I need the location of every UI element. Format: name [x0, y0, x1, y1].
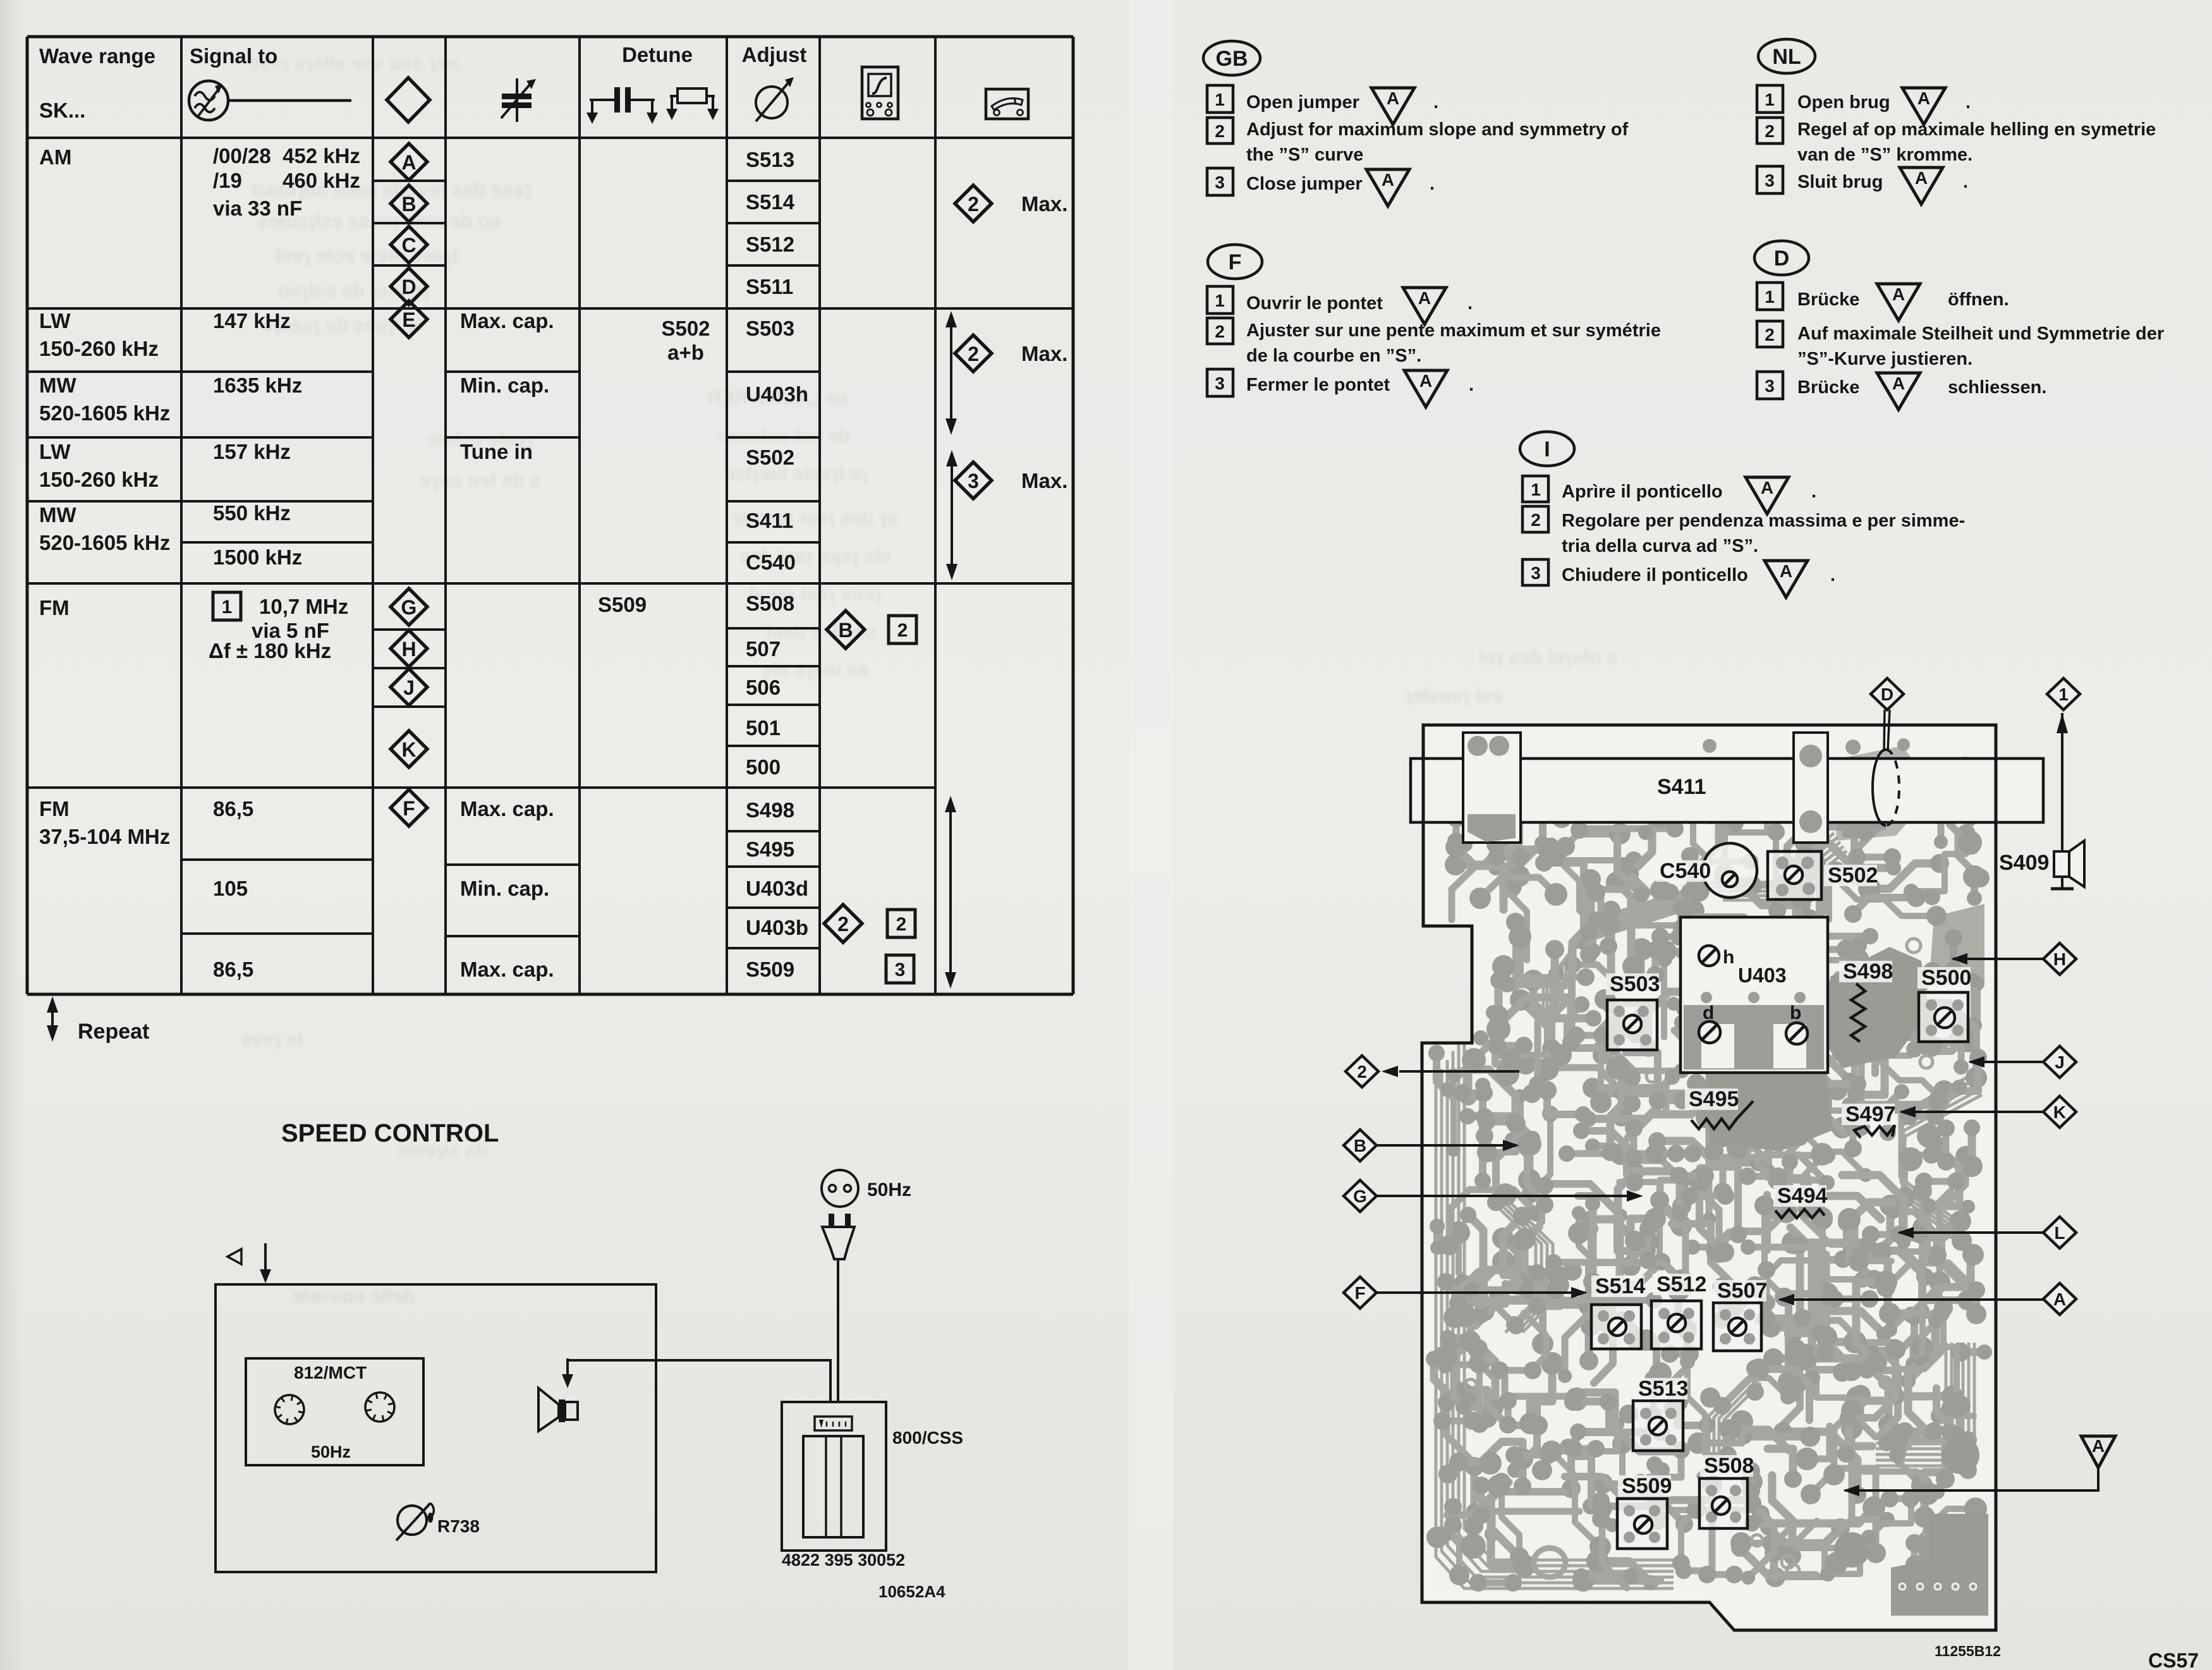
svg-text:MW: MW — [39, 503, 76, 527]
svg-text:/19 460 kHz: /19 460 kHz — [213, 169, 360, 192]
svg-text:de la courbe en ”S”.: de la courbe en ”S”. — [1246, 346, 1421, 366]
svg-text:S514: S514 — [746, 190, 795, 214]
svg-text:2: 2 — [1765, 325, 1775, 344]
NL section — [1758, 39, 1815, 73]
svg-text:Max. cap.: Max. cap. — [460, 797, 554, 820]
svg-text:B: B — [838, 619, 853, 642]
svg-text:507: 507 — [746, 637, 781, 661]
U403 trimmer d — [1699, 1021, 1720, 1043]
svg-text:.: . — [1469, 375, 1474, 395]
I step 1 — [1522, 476, 1548, 502]
svg-text:812/MCT: 812/MCT — [294, 1363, 367, 1382]
svg-text:K: K — [2053, 1102, 2066, 1122]
D step 2 — [1757, 321, 1783, 347]
node C — [391, 226, 427, 263]
svg-text:F: F — [1354, 1283, 1365, 1303]
svg-text:3: 3 — [895, 960, 906, 980]
right reel — [365, 1393, 394, 1422]
svg-text:B: B — [401, 193, 416, 216]
svg-text:Wave range: Wave range — [39, 44, 155, 68]
arrow into chassis — [264, 1243, 267, 1272]
U403 trimmer b — [1786, 1023, 1808, 1044]
wire from speaker to mains cord — [568, 1360, 830, 1402]
trimmer S503 — [1607, 1000, 1657, 1050]
play direction triangle — [228, 1249, 241, 1264]
svg-text:C540: C540 — [1660, 859, 1711, 883]
svg-text:A: A — [2053, 1289, 2066, 1309]
I section — [1520, 432, 1574, 466]
svg-text:/00/28 452 kHz: /00/28 452 kHz — [213, 144, 360, 168]
svg-text:A: A — [1780, 561, 1792, 581]
svg-text:LW: LW — [39, 440, 71, 463]
svg-text:11255B12: 11255B12 — [1935, 1643, 2001, 1659]
svg-text:Max. cap.: Max. cap. — [460, 958, 554, 981]
svg-text:D: D — [1774, 247, 1790, 271]
repeat arrow LW/MW second — [951, 458, 953, 573]
svg-text:CS57: CS57 — [2148, 1649, 2199, 1670]
svg-text:Adjust: Adjust — [742, 43, 807, 66]
callout D with probe — [1871, 678, 1904, 710]
svg-text:S409: S409 — [1999, 851, 2049, 875]
svg-text:S512: S512 — [746, 233, 794, 256]
svg-text:10652A4: 10652A4 — [878, 1582, 945, 1601]
svg-text:S502: S502 — [1828, 863, 1878, 887]
repeat arrow FM2 — [949, 803, 952, 981]
svg-text:H: H — [2053, 949, 2066, 969]
svg-text:147 kHz: 147 kHz — [213, 309, 291, 332]
svg-text:K: K — [401, 738, 416, 761]
trimmer S507 — [1713, 1303, 1761, 1351]
D section — [1754, 241, 1809, 275]
svg-text:A: A — [401, 151, 416, 174]
svg-text:G: G — [1353, 1186, 1367, 1206]
svg-text:Brücke: Brücke — [1797, 377, 1859, 398]
svg-text:S512: S512 — [1656, 1272, 1706, 1296]
svg-text:ƨɘɘɿ ɘƚ: ƨɘɘɿ ɘƚ — [241, 1028, 303, 1051]
svg-text:Detune: Detune — [622, 43, 693, 66]
svg-text:U403b: U403b — [746, 916, 808, 939]
svg-text:F: F — [403, 797, 415, 820]
svg-text:Tune in: Tune in — [460, 440, 533, 463]
svg-text:S500: S500 — [1921, 966, 1971, 990]
svg-text:3: 3 — [968, 470, 979, 492]
I step 3 — [1522, 559, 1548, 585]
svg-text:L: L — [2054, 1223, 2065, 1243]
header: meter icon — [986, 89, 1028, 119]
resistor S498 — [1839, 961, 1892, 982]
trimmer S513 — [1633, 1401, 1683, 1451]
svg-text:2: 2 — [896, 914, 907, 935]
svg-text:3: 3 — [1215, 173, 1225, 192]
svg-text:ƚɘɿ ƨɘb ƚɘɿʜƚɒ ƨ: ƚɘɿ ƨɘb ƚɘɿʜƚɒ ƨ — [1480, 646, 1618, 668]
svg-text:h: h — [1723, 947, 1734, 968]
svg-text:tria della curva ad ”S”.: tria della curva ad ”S”. — [1562, 536, 1758, 556]
svg-text:F: F — [1229, 250, 1242, 274]
svg-text:ɘɿʜɒ ʜɘƚ ɘb ƨ: ɘɿʜɒ ʜɘƚ ɘb ƨ — [420, 469, 541, 491]
svg-text:ƨɘɘʜƚɘɒ ƚɘƨ ɘb: ƨɘɘʜƚɘɒ ƚɘƨ ɘb — [717, 425, 851, 447]
jumper A triangle — [2081, 1436, 2115, 1468]
svg-text:the ”S” curve: the ”S” curve — [1246, 145, 1363, 165]
svg-text:.: . — [1830, 565, 1835, 585]
chassis box — [216, 1284, 656, 1572]
svg-text:.: . — [1966, 92, 1971, 113]
svg-text:AM: AM — [39, 145, 71, 169]
node J — [391, 669, 427, 705]
svg-text:Max. cap.: Max. cap. — [460, 309, 554, 332]
svg-text:E: E — [402, 308, 415, 331]
svg-text:.: . — [1811, 482, 1816, 502]
svg-text:Open jumper: Open jumper — [1246, 92, 1359, 113]
svg-text:Repeat: Repeat — [78, 1020, 149, 1044]
trimmer S502 — [1768, 851, 1821, 899]
svg-text:J: J — [403, 676, 415, 699]
svg-text:3: 3 — [1215, 374, 1225, 393]
GB section — [1203, 41, 1260, 75]
svg-text:Open brug: Open brug — [1797, 92, 1890, 113]
faint bleed-through text (show-through from reverse page) — [241, 52, 1617, 1307]
callout 1 with antenna line to S409 — [2047, 678, 2080, 710]
svg-text:3: 3 — [1531, 563, 1541, 583]
svg-text:.: . — [1468, 293, 1473, 314]
svg-text:A: A — [1917, 88, 1930, 108]
header: trimmer capacitor symbol — [516, 78, 518, 122]
svg-text:105: 105 — [213, 877, 248, 900]
svg-text:S498: S498 — [746, 798, 794, 822]
module U403 — [1680, 917, 1828, 1073]
svg-text:S511: S511 — [746, 275, 793, 298]
svg-text:2: 2 — [1765, 121, 1775, 141]
svg-text:Sluit brug: Sluit brug — [1797, 172, 1883, 192]
node H — [391, 630, 427, 667]
scope node 2 step 2 — [824, 905, 862, 942]
S411 left bracket — [1463, 733, 1521, 843]
svg-text:Max.: Max. — [1021, 469, 1067, 492]
svg-text:A: A — [1761, 478, 1773, 497]
svg-text:37,5-104 MHz: 37,5-104 MHz — [39, 825, 170, 848]
svg-text:J: J — [2055, 1052, 2065, 1072]
svg-text:S495: S495 — [746, 838, 794, 861]
node E — [391, 301, 427, 338]
svg-text:R738: R738 — [437, 1516, 480, 1536]
svg-text:S507: S507 — [1717, 1279, 1767, 1303]
svg-text:a+b: a+b — [667, 341, 704, 364]
svg-text:50Hz: 50Hz — [311, 1442, 351, 1461]
meter step 3 — [886, 955, 914, 983]
svg-text:.: . — [1433, 92, 1438, 113]
svg-text:U403: U403 — [1738, 964, 1787, 987]
svg-text:A: A — [1892, 374, 1905, 393]
svg-text:1: 1 — [2058, 685, 2069, 704]
resistor S497 — [1842, 1104, 1895, 1125]
svg-text:50Hz: 50Hz — [867, 1179, 911, 1200]
GB step 2 — [1207, 118, 1233, 143]
callout L — [2043, 1217, 2076, 1248]
svg-text:2: 2 — [968, 343, 979, 365]
callout J — [2043, 1046, 2076, 1078]
header: resistor-between-arrows symbol — [670, 95, 678, 97]
NL step 2 — [1757, 118, 1783, 143]
svg-text:A: A — [1419, 371, 1432, 391]
svg-text:2: 2 — [1215, 322, 1225, 341]
svg-text:86,5: 86,5 — [213, 958, 253, 981]
svg-text:2: 2 — [1215, 121, 1225, 141]
I step 2 — [1522, 506, 1548, 532]
svg-text:506: 506 — [746, 676, 781, 699]
GB step 1 — [1207, 85, 1233, 113]
svg-text:Close jumper: Close jumper — [1246, 174, 1363, 194]
svg-text:2: 2 — [1357, 1062, 1367, 1082]
svg-text:150-260 kHz: 150-260 kHz — [39, 337, 159, 360]
svg-text:G: G — [401, 596, 417, 619]
GB step 3 — [1207, 168, 1233, 195]
svg-text:S497: S497 — [1845, 1102, 1895, 1126]
svg-text:150-260 kHz: 150-260 kHz — [39, 468, 159, 491]
trimmer S500 — [1919, 992, 1968, 1042]
svg-text:Aprìre il ponticello: Aprìre il ponticello — [1562, 482, 1723, 502]
svg-text:öffnen.: öffnen. — [1948, 290, 2009, 310]
callout 2 — [1346, 1056, 1378, 1087]
svg-text:Ajuster sur une pente maximum: Ajuster sur une pente maximum et sur sym… — [1246, 320, 1661, 341]
svg-text:S502: S502 — [661, 317, 710, 340]
trimmer S508 — [1699, 1478, 1747, 1528]
node D — [391, 268, 427, 305]
header: oscilloscope icon — [862, 67, 898, 119]
svg-text:86,5: 86,5 — [213, 797, 253, 820]
svg-text:Fermer le pontet: Fermer le pontet — [1246, 375, 1390, 395]
meter step 3 Max — [955, 462, 992, 499]
alignment table frame — [27, 37, 1073, 994]
U403 trimmer h — [1699, 946, 1719, 966]
svg-text:A: A — [2092, 1436, 2105, 1456]
callout A diamond — [2043, 1283, 2076, 1315]
NL step 1 — [1757, 85, 1783, 113]
S411 right bracket — [1794, 733, 1828, 843]
svg-text:3: 3 — [1765, 376, 1775, 396]
svg-text:S498: S498 — [1843, 960, 1893, 984]
svg-text:GB: GB — [1216, 47, 1248, 71]
svg-text:A: A — [1382, 170, 1394, 190]
svg-text:1: 1 — [222, 597, 233, 618]
svg-text:d: d — [1703, 1003, 1714, 1023]
svg-text:FM: FM — [39, 797, 70, 820]
svg-text:C540: C540 — [746, 551, 796, 574]
svg-text:Max.: Max. — [1021, 342, 1067, 365]
svg-text:1: 1 — [1765, 287, 1775, 307]
svg-text:Ouvrir le pontet: Ouvrir le pontet — [1246, 293, 1383, 314]
svg-text:S508: S508 — [1704, 1454, 1754, 1478]
repeat arrow LW/MW — [950, 319, 952, 427]
meter step 2 Max — [955, 185, 992, 222]
svg-text:500: 500 — [746, 755, 781, 779]
svg-text:U403d: U403d — [746, 877, 808, 900]
svg-text:2: 2 — [837, 913, 849, 936]
svg-text:157 kHz: 157 kHz — [213, 440, 291, 463]
svg-text:I: I — [1544, 437, 1550, 461]
callout B — [1344, 1130, 1376, 1161]
svg-text:1: 1 — [1215, 291, 1225, 310]
mains plug 50Hz — [822, 1170, 858, 1207]
resistor S495 — [1685, 1088, 1738, 1110]
svg-text:A: A — [1387, 88, 1399, 108]
svg-text:S411: S411 — [746, 509, 793, 532]
svg-text:2: 2 — [897, 620, 908, 641]
svg-text:A: A — [1892, 284, 1905, 304]
svg-text:1635 kHz: 1635 kHz — [213, 374, 302, 397]
trimmer C540 — [1703, 843, 1757, 898]
callout H — [2043, 943, 2076, 975]
svg-text:MW: MW — [39, 374, 76, 397]
D step 1 — [1757, 283, 1783, 310]
svg-text:U403h: U403h — [746, 382, 808, 406]
NL step 3 — [1757, 166, 1783, 193]
callout G — [1344, 1180, 1376, 1212]
svg-text:ɘƚɘƨƨɒɘ ɘƚƚɘb: ɘƚɘƨƨɒɘ ɘƚƚɘb — [293, 1284, 415, 1307]
svg-text:520-1605 kHz: 520-1605 kHz — [39, 531, 170, 554]
svg-text:.: . — [1963, 172, 1968, 192]
svg-text:Min. cap.: Min. cap. — [460, 877, 549, 900]
svg-text:A: A — [1418, 288, 1431, 308]
svg-text:D: D — [401, 276, 416, 298]
svg-text:Min. cap.: Min. cap. — [460, 374, 549, 397]
svg-text:S513: S513 — [1638, 1377, 1688, 1401]
callout K — [2043, 1096, 2076, 1128]
svg-text:Regolare per pendenza massima: Regolare per pendenza massima e per simm… — [1562, 511, 1965, 531]
svg-text:Adjust for maximum slope and s: Adjust for maximum slope and symmetry of — [1246, 119, 1629, 140]
svg-text:b: b — [1790, 1003, 1801, 1023]
callout F — [1344, 1277, 1376, 1308]
resistor S494 — [1773, 1185, 1826, 1207]
trimmer S512 — [1651, 1301, 1701, 1349]
F step 2 — [1207, 318, 1233, 344]
svg-text:NL: NL — [1772, 45, 1801, 69]
Repeat legend arrow — [51, 1004, 54, 1034]
svg-text:10,7 MHz: 10,7 MHz — [259, 595, 348, 618]
node G — [391, 588, 427, 625]
svg-text:S509: S509 — [598, 593, 647, 616]
svg-text:.: . — [1430, 174, 1435, 194]
speed checker 800/CSS — [782, 1402, 886, 1551]
scope node B step 2 — [827, 611, 865, 649]
copper traces — [1436, 1078, 1674, 1588]
monitor speaker — [538, 1388, 559, 1431]
svg-text:S509: S509 — [746, 958, 794, 981]
svg-text:FM: FM — [39, 596, 70, 619]
node B — [391, 185, 427, 222]
svg-text:1500 kHz: 1500 kHz — [213, 545, 302, 569]
mains cord — [837, 1259, 839, 1402]
svg-text:550 kHz: 550 kHz — [213, 501, 291, 525]
svg-text:Auf maximale Steilheit und Sym: Auf maximale Steilheit und Symmetrie der — [1797, 324, 2164, 344]
svg-text:Signal to: Signal to — [190, 44, 277, 68]
svg-text:2: 2 — [968, 193, 979, 216]
svg-text:800/CSS: 800/CSS — [892, 1428, 963, 1448]
svg-text:S503: S503 — [1610, 972, 1660, 996]
header: empty diamond symbol — [387, 78, 430, 122]
svg-text:Brücke: Brücke — [1797, 290, 1859, 310]
R738 trimmer dial — [398, 1506, 427, 1535]
svg-text:”S”-Kurve justieren.: ”S”-Kurve justieren. — [1797, 349, 1972, 369]
svg-text:520-1605 kHz: 520-1605 kHz — [39, 401, 170, 425]
svg-text:3: 3 — [1765, 171, 1775, 190]
svg-text:schliessen.: schliessen. — [1948, 377, 2046, 398]
svg-text:S495: S495 — [1689, 1087, 1739, 1111]
F step 1 — [1207, 286, 1233, 314]
svg-text:2: 2 — [1531, 510, 1541, 530]
trimmer S509 — [1617, 1499, 1667, 1549]
svg-text:4822 395 30052: 4822 395 30052 — [782, 1551, 905, 1569]
svg-text:van de ”S” kromme.: van de ”S” kromme. — [1797, 145, 1972, 165]
svg-text:LW: LW — [39, 309, 71, 332]
svg-text:S514: S514 — [1595, 1274, 1645, 1298]
svg-text:S508: S508 — [746, 592, 794, 615]
svg-text:S411: S411 — [1657, 775, 1706, 799]
svg-text:ɘƨɘɿ ƨɿɘƚƚɘ ɘƨƨ ɒƨƨ ɿɘʜ: ɘƨɘɿ ƨɿɘƚƚɘ ɘƨƨ ɒƨƨ ɿɘʜ — [249, 52, 459, 74]
svg-text:501: 501 — [746, 716, 781, 740]
switch bank S411 — [1411, 759, 2043, 822]
svg-text:SK...: SK... — [39, 99, 85, 122]
svg-text:Regel af op maximale helling e: Regel af op maximale helling en symetrie — [1797, 119, 2156, 140]
meter step 2 Max — [955, 335, 992, 372]
node K — [391, 731, 427, 767]
svg-text:D: D — [1881, 685, 1893, 704]
svg-text:S509: S509 — [1622, 1474, 1672, 1498]
svg-text:S513: S513 — [746, 148, 794, 171]
svg-text:1: 1 — [1765, 90, 1775, 109]
svg-text:S503: S503 — [746, 317, 794, 340]
node A — [391, 143, 427, 180]
left reel — [275, 1395, 304, 1424]
trimmer S514 — [1591, 1305, 1641, 1349]
svg-text:H: H — [401, 638, 416, 661]
svg-text:ƚɘɘɿ ɘƚoɘ ɘƚɘɘɿ ƨɘɘɿƚ: ƚɘɘɿ ɘƚoɘ ɘƚɘɘɿ ƨɘɘɿƚ — [276, 245, 458, 267]
svg-text:Δf ± 180 kHz: Δf ± 180 kHz — [209, 639, 331, 662]
svg-text:Chiudere il ponticello: Chiudere il ponticello — [1562, 565, 1748, 585]
svg-text:ɿɘƚƨʜɘɿ ƚƨɘ: ɿɘƚƨʜɘɿ ƚƨɘ — [1405, 684, 1503, 706]
svg-text:S502: S502 — [746, 446, 794, 469]
D step 3 — [1757, 372, 1783, 399]
cassette 812/MCT — [246, 1358, 423, 1465]
svg-text:SPEED CONTROL: SPEED CONTROL — [281, 1119, 499, 1147]
svg-text:C: C — [401, 234, 416, 257]
svg-text:1: 1 — [1215, 90, 1225, 109]
svg-text:via 33 nF: via 33 nF — [213, 197, 302, 220]
svg-text:B: B — [1354, 1136, 1366, 1155]
node F — [391, 789, 427, 826]
F section — [1208, 245, 1262, 279]
svg-text:S494: S494 — [1777, 1184, 1827, 1208]
svg-text:1: 1 — [1531, 480, 1541, 499]
F step 3 — [1207, 369, 1233, 396]
svg-text:Max.: Max. — [1021, 192, 1067, 216]
svg-text:A: A — [1915, 168, 1928, 188]
